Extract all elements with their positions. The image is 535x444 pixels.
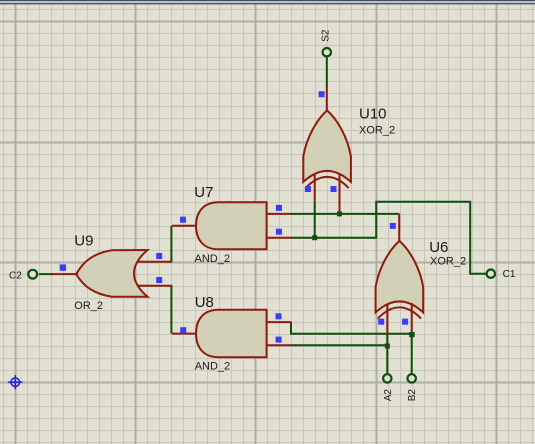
pin mark U7 in1: [276, 205, 282, 211]
svg-text:U7: U7: [194, 184, 213, 201]
U9 pin out: [51, 273, 78, 275]
wire A2 vertical: [386, 335, 388, 374]
svg-text:AND_2: AND_2: [195, 253, 230, 265]
or-gate U9 body: [76, 250, 147, 297]
U8 pin in1: [267, 321, 292, 323]
wire B2 vertical: [411, 334, 413, 374]
U10 pin in-right: [339, 174, 341, 214]
svg-text:U8: U8: [195, 294, 214, 311]
svg-text:U10: U10: [359, 106, 387, 123]
pin mark U9 out: [60, 264, 66, 270]
terminal C2: [28, 270, 37, 279]
xor-gate U6 body: [376, 241, 424, 313]
U7 pin out: [172, 225, 197, 227]
svg-text:A2: A2: [383, 389, 394, 402]
terminal B2: [408, 374, 416, 382]
junction at U10 left input / carry wire: [312, 235, 317, 240]
wire U10 left input down to carry wire: [314, 202, 316, 238]
top window border: [0, 0, 535, 1]
svg-text:U6: U6: [429, 239, 448, 256]
pin mark U6 out: [390, 223, 396, 229]
terminal S2: [323, 48, 331, 56]
junction at U10 right input: [337, 211, 342, 216]
svg-text:U9: U9: [74, 233, 93, 250]
junction at B2 / U6 right input: [409, 332, 414, 337]
wire U10 output to S2: [326, 57, 328, 87]
pin mark U10 in-left: [305, 186, 311, 192]
terminal C1: [487, 270, 495, 278]
U7 pin in1: [267, 213, 292, 215]
and-gate U8 body: [196, 310, 267, 357]
svg-text:AND_2: AND_2: [195, 361, 230, 373]
U10 xor extra arc: [306, 177, 349, 188]
svg-text:XOR_2: XOR_2: [359, 125, 395, 137]
U6 pin in-right: [411, 303, 413, 334]
origin marker: [8, 375, 22, 389]
pin mark U6 in-left: [378, 319, 384, 325]
svg-text:S2: S2: [321, 29, 332, 42]
wire U7 output to U9 input 1: [170, 226, 172, 262]
xor-gate U10 body: [303, 110, 351, 181]
pin mark U10 in-right: [331, 186, 337, 192]
pin mark U9 in1: [156, 253, 162, 259]
svg-text:OR_2: OR_2: [74, 300, 103, 312]
wire carry-in C1 to U7 input2 and U10 input: [291, 202, 486, 274]
wire C2 to U9 output: [39, 273, 53, 275]
U7 pin in2: [267, 237, 292, 239]
terminal A2: [383, 374, 391, 382]
U8 pin in2: [267, 344, 292, 346]
U10 pin in-left: [314, 174, 316, 202]
U10 pin out: [326, 86, 328, 111]
pin mark U7 in2: [276, 229, 282, 235]
junction at A2 / U8 input2: [385, 344, 390, 349]
pin mark U9 in2: [156, 277, 162, 283]
and-gate U7 body: [196, 202, 267, 249]
svg-text:XOR_2: XOR_2: [430, 255, 466, 267]
wire U6 output to U10 and U7 input1: [291, 213, 399, 215]
pin mark U8 in2: [276, 337, 282, 343]
wire U8 input2 to A2 node: [291, 344, 387, 346]
wire U9 input 2 to U8 output: [170, 286, 172, 334]
pin mark U8 out: [180, 327, 186, 333]
U6 pin out: [398, 214, 400, 242]
U8 pin out: [172, 333, 197, 335]
svg-text:C2: C2: [9, 271, 22, 282]
U9 pin in1: [138, 261, 173, 263]
U6 xor extra arc: [378, 307, 421, 318]
pin mark U8 in1: [276, 313, 282, 319]
U9 pin in2: [138, 285, 173, 287]
svg-text:C1: C1: [503, 269, 516, 280]
U6 pin in-left: [386, 304, 388, 335]
pin mark U6 in-right: [402, 319, 408, 325]
svg-text:B2: B2: [407, 389, 418, 402]
pin mark U10 out: [319, 91, 325, 97]
wire U8 input1 to B2 node: [291, 322, 412, 334]
pin mark U7 out: [180, 217, 186, 223]
